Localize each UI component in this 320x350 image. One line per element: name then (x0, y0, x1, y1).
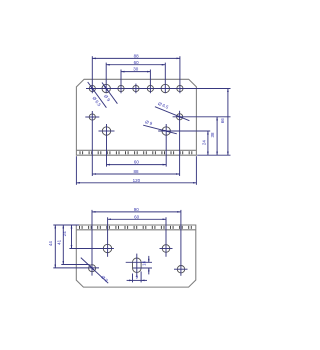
svg-text:Ø 9: Ø 9 (145, 119, 154, 126)
leader diameter 9 left (102, 83, 117, 104)
dimension 120 bottom (76, 182, 196, 184)
hole upper-right lower view (162, 245, 170, 253)
svg-text:60: 60 (134, 214, 140, 219)
svg-text:60: 60 (134, 60, 140, 65)
dimension 88 bottom (92, 173, 179, 175)
top row hole 3 (118, 85, 124, 91)
hole D crosshair extension right (158, 130, 210, 132)
hole upper-left lower view (103, 244, 111, 252)
dimension 60 lower view (108, 218, 166, 220)
svg-text:24: 24 (201, 140, 206, 146)
hole bottom-left extension line 41 (61, 264, 89, 266)
lower view bend band dashes (79, 226, 194, 229)
svg-text:88: 88 (134, 54, 140, 59)
dimension 88 top (92, 57, 180, 59)
svg-text:41: 41 (56, 239, 61, 245)
svg-text:120: 120 (133, 178, 141, 183)
hole C extension down (179, 111, 181, 176)
dimension 9 slot width (133, 279, 142, 281)
svg-text:Ø 6.5: Ø 6.5 (91, 96, 102, 108)
hole A mid-left (89, 114, 95, 120)
dimension 41 left (62, 225, 64, 265)
hole C mid-right (177, 114, 183, 120)
hole bottom-right lower view (177, 266, 184, 273)
top row hole 2 (102, 84, 110, 92)
dimension 60 top (106, 64, 165, 66)
svg-text:60: 60 (134, 160, 140, 165)
slot extension right (140, 272, 142, 283)
leader diameter 9 right (143, 125, 177, 134)
top row hole 1 (89, 85, 95, 91)
extension line hole 1 (91, 56, 93, 93)
top row hole 7 (177, 85, 183, 91)
hole upper-right extension up (165, 217, 167, 256)
hole bottom-right crosshair (174, 268, 188, 270)
upper view plate outline (76, 79, 196, 155)
leader diameter 9 lower view (81, 258, 108, 284)
slot outline (133, 258, 142, 272)
svg-text:16: 16 (141, 260, 146, 265)
hole bottom-left extension up (91, 210, 93, 276)
top row hole 4 (133, 85, 139, 91)
svg-text:88: 88 (133, 169, 139, 174)
lower view plate outline (76, 225, 196, 287)
hole D extension down (165, 124, 167, 167)
dimension 30 top (121, 71, 150, 73)
hole upper-left crosshair (69, 248, 114, 250)
svg-text:24: 24 (62, 231, 67, 237)
lower view bend band line (76, 229, 196, 231)
upper view bend band dashes (80, 151, 194, 154)
extension line hole 5 (149, 70, 151, 94)
centerline hole 4 (135, 84, 137, 94)
extension line plate bottom right (197, 154, 230, 156)
hole B mid-left (102, 127, 110, 135)
svg-text:90: 90 (134, 207, 140, 212)
extension line hole 3 (120, 70, 122, 94)
hole C crosshair extension right (173, 116, 231, 118)
leader diameter 6.5 left (88, 82, 107, 108)
slot arc centerline top (126, 261, 152, 263)
svg-text:38: 38 (210, 132, 215, 138)
svg-text:44: 44 (48, 241, 53, 247)
dimension 60 bottom (107, 164, 167, 166)
extension line 120 left (75, 156, 77, 185)
hole upper-right crosshair (160, 248, 173, 250)
extension line hole 7 (179, 56, 181, 93)
svg-text:30: 30 (133, 67, 139, 72)
extension line top edge lower view (53, 224, 79, 226)
slot extension left (132, 274, 134, 283)
svg-text:Ø 9: Ø 9 (100, 274, 109, 283)
hole A crosshair (85, 116, 99, 118)
top row hole 5 (147, 85, 153, 91)
hole bottom-left lower view (89, 265, 96, 272)
dimension 24 left (71, 225, 73, 248)
hole upper-left extension up (107, 217, 109, 256)
slot arc centerline bottom (133, 267, 152, 269)
svg-text:Ø 9: Ø 9 (103, 94, 112, 103)
top row hole 6 (161, 84, 169, 92)
hole D mid-right (162, 127, 170, 135)
extension line 120 right (195, 156, 197, 185)
dimension 38 right (216, 117, 218, 155)
slot vertical centerline (136, 254, 138, 277)
extension line hole 2 (105, 63, 107, 94)
dimension 90 lower view (92, 211, 181, 213)
dimension 44 left (54, 225, 56, 268)
svg-text:9: 9 (136, 275, 139, 280)
hole bottom-right extension up (180, 210, 182, 276)
dimension 16 slot (148, 256, 150, 262)
hole A extension down (91, 111, 93, 176)
svg-text:66: 66 (220, 118, 225, 124)
dimension 66 right (227, 89, 229, 156)
hole bottom-left centerline horizontal (53, 267, 99, 269)
hole B crosshair (99, 130, 115, 132)
leader diameter 6.5 right (155, 107, 190, 121)
upper view bend band line (76, 149, 196, 151)
dimension 24 right (207, 131, 209, 155)
extension line hole 6 (164, 63, 166, 94)
hole B extension down (106, 124, 108, 167)
top row centerline (86, 88, 231, 90)
